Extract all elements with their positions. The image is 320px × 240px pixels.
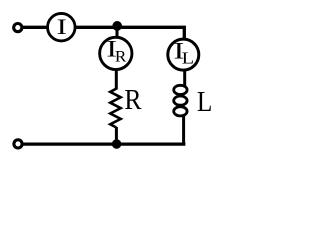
- ammeter U1 (I): [48, 13, 76, 41]
- ammeter U3 (I_L): [168, 39, 199, 70]
- svg-text:R: R: [124, 84, 142, 116]
- wire: bottom rail: [22, 142, 185, 145]
- node: bottom junction: [112, 139, 122, 149]
- wire: junction stem to I_R: [116, 26, 119, 38]
- resistor R: [110, 89, 121, 128]
- inductor L loop 1: [174, 85, 187, 94]
- wire: terminal to ammeter I: [22, 26, 48, 29]
- bottom-left terminal: [14, 140, 22, 148]
- svg-text:L: L: [182, 49, 194, 68]
- inductor L loop 3: [174, 107, 187, 116]
- wire: resistor to bottom junction: [115, 127, 118, 144]
- wire: I_L to inductor: [183, 70, 186, 87]
- wire: inductor to bottom rail: [182, 115, 185, 145]
- inductor L loop 2: [174, 96, 187, 105]
- ammeter U2 (I_R): [100, 37, 132, 69]
- svg-text:L: L: [197, 87, 212, 118]
- node: top junction: [112, 21, 122, 31]
- wire: I_R to resistor: [115, 70, 118, 90]
- svg-text:R: R: [115, 48, 127, 65]
- svg-text:I: I: [57, 15, 67, 39]
- top-left terminal: [14, 24, 22, 32]
- wire: ammeter I to top-right corner down to I_L: [75, 27, 184, 39]
